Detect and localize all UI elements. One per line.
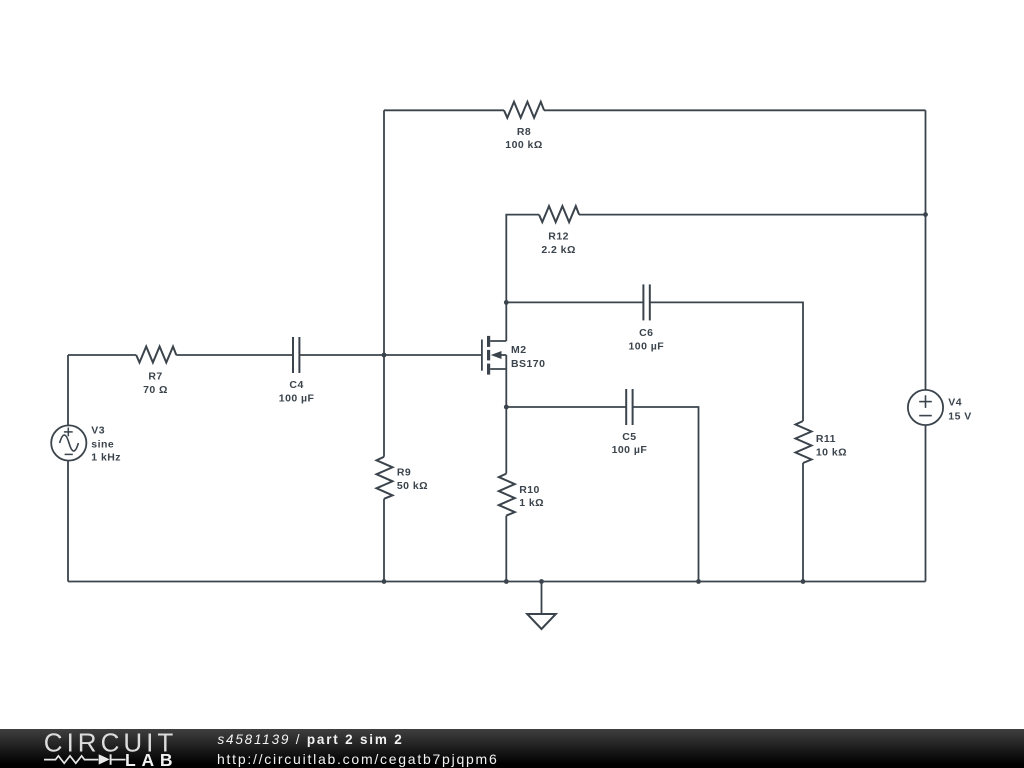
wire [383,499,385,582]
svg-text:100 µF: 100 µF [612,444,648,456]
transistor M2 (BS170 NMOS) [482,336,506,375]
voltage source V3 (sine) [51,425,86,460]
wire [506,215,539,341]
wire bottom rail [68,581,926,583]
svg-text:R7: R7 [148,371,162,383]
svg-text:C4: C4 [289,379,303,391]
resistor R10 [499,474,515,516]
wire [68,354,136,356]
plot url line 2 [217,751,498,767]
wire [650,302,803,421]
svg-text:R11: R11 [816,433,836,445]
svg-text:1 kΩ: 1 kΩ [519,497,544,509]
svg-text:V4: V4 [948,397,962,409]
node at R12/V4 junction [923,212,928,217]
node rail/ground [539,579,544,584]
wire [579,214,926,216]
node rail/R10 [504,579,509,584]
wire [299,354,481,356]
svg-text:100 µF: 100 µF [628,340,664,352]
CircuitLab logo [0,729,200,768]
svg-text:LAB: LAB [125,750,178,768]
svg-text:M2: M2 [511,344,527,356]
wire [925,425,927,581]
plot title text line 1 [218,732,404,747]
resistor R9 [377,457,393,499]
svg-text:15 V: 15 V [948,410,971,422]
svg-text:R12: R12 [548,231,569,243]
node at R8/input junction [382,353,387,358]
svg-text:R8: R8 [517,126,531,138]
svg-text:sine: sine [91,439,114,451]
node at source/C5/R10 junction [504,405,509,410]
resistor R12 [539,206,579,222]
svg-text:50 kΩ: 50 kΩ [397,480,428,492]
wire [506,406,626,408]
ground [527,582,556,630]
svg-text:R9: R9 [397,467,411,479]
wire [802,463,804,582]
capacitor C6 [643,284,649,320]
wire [383,110,385,457]
voltage source V4 (15 V) [908,390,943,425]
footer bar [0,729,1024,768]
wire [176,354,293,356]
wire [925,110,927,390]
wire [506,301,643,303]
svg-text:BS170: BS170 [511,358,545,370]
svg-text:V3: V3 [91,424,105,436]
resistor R8 [504,102,544,118]
wire [505,516,507,582]
svg-text:100 µF: 100 µF [279,393,315,405]
svg-text:R10: R10 [519,484,540,496]
svg-text:C6: C6 [639,327,653,339]
wire [544,109,926,111]
svg-text:2.2 kΩ: 2.2 kΩ [541,244,575,256]
capacitor C5 [626,389,632,425]
node rail/C5 [696,579,701,584]
svg-text:100 kΩ: 100 kΩ [505,139,542,151]
node at drain/C6/R12 junction [504,300,509,305]
wire [633,407,699,582]
svg-text:C5: C5 [622,431,636,443]
node rail/R11 [801,579,806,584]
svg-text:10 kΩ: 10 kΩ [816,447,847,459]
svg-text:70 Ω: 70 Ω [143,384,168,396]
capacitor C4 [293,337,299,373]
wire [384,109,504,111]
resistor R11 [796,421,812,463]
wire [505,355,507,474]
wire [67,355,69,425]
resistor R7 [136,347,176,363]
svg-text:1 kHz: 1 kHz [91,451,121,463]
wire [67,461,69,582]
node rail/R9 [382,579,387,584]
